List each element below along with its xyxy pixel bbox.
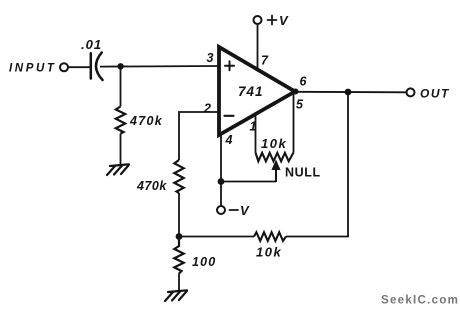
svg-text:OUT: OUT bbox=[420, 87, 450, 101]
svg-text:V: V bbox=[240, 203, 250, 218]
node junction input bbox=[117, 63, 123, 69]
svg-text:741: 741 bbox=[238, 84, 264, 99]
ground under R1 bbox=[107, 164, 129, 175]
capacitor C1 .01 bbox=[91, 52, 103, 80]
input terminal bbox=[60, 63, 68, 71]
svg-text:10k: 10k bbox=[256, 245, 282, 260]
wire input terminal to capacitor bbox=[68, 66, 90, 68]
svg-text:4: 4 bbox=[225, 133, 233, 147]
wire junction to R4 bbox=[179, 236, 254, 238]
svg-text:7: 7 bbox=[261, 54, 269, 68]
ground under R3 bbox=[165, 290, 187, 301]
resistor R4 10k feedback bbox=[254, 232, 286, 241]
resistor R1 470k bbox=[116, 107, 125, 134]
svg-text:100: 100 bbox=[192, 255, 216, 269]
wire output pin 6 bbox=[295, 91, 407, 94]
label +V bbox=[268, 16, 277, 25]
wire R4 to output node bbox=[286, 92, 348, 237]
svg-text:470k: 470k bbox=[129, 114, 163, 128]
node apex pin 6 bbox=[293, 89, 299, 95]
wire pin 2 bbox=[179, 112, 219, 160]
wire capacitor to pin 3 bbox=[100, 65, 219, 68]
svg-text:V: V bbox=[279, 13, 289, 28]
wire wiper to -V node bbox=[221, 181, 276, 183]
wire R1 to ground bbox=[120, 134, 122, 165]
plus sign noninverting input bbox=[225, 61, 234, 70]
svg-text:10k: 10k bbox=[261, 136, 287, 151]
wire pin 1 to potentiometer bbox=[255, 115, 257, 153]
wire junction down to R1 bbox=[120, 66, 122, 106]
svg-text:5: 5 bbox=[296, 98, 304, 112]
op-amp U1 741 triangle bbox=[219, 47, 295, 135]
svg-text:.01: .01 bbox=[81, 37, 102, 52]
node junction null bbox=[218, 178, 225, 185]
svg-text:2: 2 bbox=[203, 102, 211, 116]
wire R3 to ground bbox=[178, 274, 180, 292]
svg-text:6: 6 bbox=[300, 75, 308, 89]
node junction feedback bbox=[176, 233, 183, 240]
resistor R3 100 bbox=[174, 237, 183, 274]
svg-text:NULL: NULL bbox=[285, 166, 321, 180]
potentiometer wiper arrow bbox=[271, 160, 280, 183]
node junction output bbox=[345, 89, 352, 96]
resistor R2 470k bbox=[174, 160, 183, 193]
label -V bbox=[230, 209, 239, 211]
wire pin 4 to -V bbox=[220, 134, 222, 206]
svg-text:SeekIC.com: SeekIC.com bbox=[381, 295, 459, 307]
+V terminal bbox=[254, 16, 262, 24]
svg-text:INPUT: INPUT bbox=[9, 63, 57, 75]
potentiometer 10k null bbox=[256, 153, 294, 162]
svg-text:470k: 470k bbox=[136, 179, 167, 193]
wire pin 5 to potentiometer bbox=[293, 92, 295, 153]
minus sign inverting input bbox=[225, 115, 234, 117]
-V terminal bbox=[217, 206, 225, 214]
wire pin 7 to +V bbox=[257, 24, 259, 68]
wire R2 to bottom junction bbox=[178, 193, 180, 237]
svg-text:3: 3 bbox=[207, 51, 214, 65]
output terminal bbox=[407, 88, 415, 96]
